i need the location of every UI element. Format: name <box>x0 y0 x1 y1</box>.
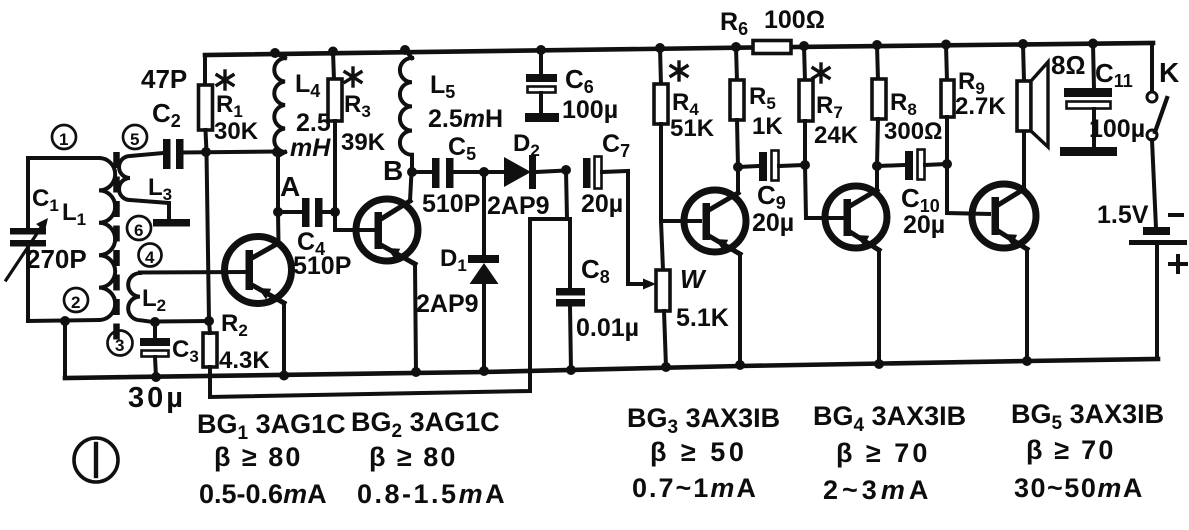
svg-text:100Ω: 100Ω <box>764 6 825 34</box>
svg-text:BG3 3AX3IB: BG3 3AX3IB <box>627 403 780 438</box>
wire R3 top from rail <box>333 52 334 81</box>
svg-text:2: 2 <box>71 293 80 312</box>
wire L5 top from rail <box>405 50 412 58</box>
svg-text:100µ: 100µ <box>1089 115 1145 143</box>
wire battery to ground rail <box>1155 245 1159 359</box>
wire top supply rail left section <box>205 48 753 56</box>
capacitor C7 20u <box>583 157 628 189</box>
resistor R3 39K <box>328 79 342 121</box>
wire R7 top from rail <box>804 46 805 81</box>
wire L2 bottom to bias node <box>155 319 209 324</box>
wiper arrow into W <box>643 279 656 290</box>
label plus <box>1170 256 1186 272</box>
node R3 rail junction <box>328 47 338 57</box>
svg-text:mH: mH <box>290 134 331 162</box>
svg-text:270P: 270P <box>26 244 87 274</box>
node terminal 3 <box>108 331 133 356</box>
wire BG1 emitter to ground rail <box>282 303 286 377</box>
wire R9 bottom to BG5 base <box>947 117 989 214</box>
node C5 D1 junction <box>479 167 489 177</box>
wire bottom ground rail <box>65 359 1158 378</box>
svg-text:1: 1 <box>59 130 68 149</box>
wire R1 top from rail <box>203 55 207 86</box>
wire R4 top from rail <box>660 48 661 85</box>
node B <box>407 167 417 177</box>
capacitor C4 510P <box>278 198 335 227</box>
wire C7 to volume wiper <box>628 171 644 284</box>
wire BG2 collector to node B <box>410 172 412 201</box>
node speaker rail junction <box>1018 39 1028 49</box>
wire BG1 collector to node A <box>276 212 281 244</box>
node terminal 4 <box>139 244 162 268</box>
wire W bottom to ground <box>664 311 666 367</box>
wire switch to battery <box>1152 140 1156 228</box>
wire R1 bottom to bias node <box>206 130 210 321</box>
inductor L4 2.5mH <box>274 58 285 152</box>
node R4 rail junction <box>655 43 665 53</box>
inductor L5 2.5mH <box>400 58 412 155</box>
wire C1 branch lower <box>26 246 30 321</box>
label 2.5mH L5 <box>428 105 503 133</box>
node R9 rail junction <box>941 40 951 50</box>
node C4 R3 junction <box>330 207 340 217</box>
wire R8 bottom to C10 node <box>877 119 878 166</box>
node R8 rail junction <box>872 40 882 50</box>
star mark R3 <box>345 68 361 86</box>
wire R9 top from rail <box>946 45 947 82</box>
resistor R4 51K <box>654 84 668 124</box>
transistor BG2 <box>356 199 418 264</box>
svg-text:A: A <box>280 171 300 202</box>
inductor L2 base coil <box>128 273 155 322</box>
node D1 ground <box>479 366 489 376</box>
wire BG3 emitter to ground <box>738 254 742 365</box>
wire L4 top from rail <box>275 53 285 58</box>
node C6 rail junction <box>536 45 546 55</box>
node BG1 emitter ground <box>279 371 289 381</box>
svg-text:510P: 510P <box>293 252 351 280</box>
svg-text:2AP9: 2AP9 <box>487 192 550 220</box>
wire R3 line to BG2 base <box>335 212 374 230</box>
diode D1 2AP9 <box>468 172 499 371</box>
svg-text:20µ: 20µ <box>752 209 794 237</box>
capacitor C6 100u <box>525 50 559 122</box>
node terminal 5 <box>123 125 147 149</box>
node L4 rail junction <box>270 48 280 58</box>
resistor R1 30K <box>199 85 213 130</box>
node BG2 emitter ground <box>411 367 421 377</box>
svg-text:510P: 510P <box>422 190 480 218</box>
wire L4 bottom to node A <box>278 152 285 212</box>
svg-text:20µ: 20µ <box>903 211 945 239</box>
capacitor C1 variable 270P <box>6 218 48 280</box>
svg-text:24K: 24K <box>814 122 859 149</box>
star mark R7 <box>813 64 829 82</box>
svg-text:0.01µ: 0.01µ <box>576 314 639 342</box>
node BG5 emitter ground <box>1022 356 1032 366</box>
svg-text:0.5-0.6mA: 0.5-0.6mA <box>199 479 327 509</box>
diode D2 2AP9 <box>504 155 566 189</box>
wire left tank bottom <box>28 320 99 321</box>
node C3 ground <box>151 372 161 382</box>
resistor R6 100ohm in rail <box>753 41 791 54</box>
speaker 8ohm <box>1017 62 1048 147</box>
svg-text:1K: 1K <box>752 113 783 140</box>
svg-text:β ≥ 80: β ≥ 80 <box>369 442 457 472</box>
capacitor C2 47P <box>163 139 184 169</box>
svg-text:5: 5 <box>130 130 139 149</box>
node L2 bottom junction <box>150 317 160 327</box>
svg-text:1.5V: 1.5V <box>1097 201 1149 229</box>
wire BG4 collector up <box>875 166 879 190</box>
ground symbol below L3 <box>153 219 190 227</box>
node A <box>273 207 283 217</box>
battery 1.5V <box>1129 227 1187 245</box>
wire R5 bottom to C9 node <box>737 120 738 167</box>
wire speaker top from rail <box>1023 44 1024 81</box>
capacitor C8 0.01u <box>556 219 585 371</box>
svg-text:51K: 51K <box>670 115 715 142</box>
svg-text:β ≥ 70: β ≥ 70 <box>836 438 930 468</box>
svg-text:6: 6 <box>134 221 143 240</box>
svg-text:2.5: 2.5 <box>296 109 331 137</box>
resistor R8 300ohm <box>872 79 886 119</box>
star mark R4 <box>671 62 687 80</box>
node terminal 2 <box>64 288 88 312</box>
svg-text:30K: 30K <box>214 118 259 145</box>
svg-text:0.7~1mA: 0.7~1mA <box>632 473 758 503</box>
node terminal 1 <box>52 125 76 149</box>
switch K <box>1147 92 1167 140</box>
svg-text:2.5mH: 2.5mH <box>428 105 503 133</box>
wire C11 top from rail <box>1093 44 1094 90</box>
wire R5 top from rail <box>736 47 737 81</box>
wire L2 to BG1 base <box>140 270 245 275</box>
node BG3 emitter ground <box>735 360 745 370</box>
svg-text:5.1K: 5.1K <box>676 304 729 332</box>
capacitor C5 510P <box>412 158 504 188</box>
svg-text:B: B <box>383 155 403 186</box>
transistor BG1 <box>225 237 292 304</box>
svg-text:4.3K: 4.3K <box>219 347 270 374</box>
svg-text:BG2 3AG1C: BG2 3AG1C <box>351 407 500 442</box>
transistor BG4 <box>825 186 887 250</box>
svg-text:2.7K: 2.7K <box>955 93 1006 120</box>
svg-text:BG4 3AX3IB: BG4 3AX3IB <box>813 401 966 436</box>
svg-text:20µ: 20µ <box>581 190 623 218</box>
star mark R1 <box>217 71 233 89</box>
svg-text:2~3mA: 2~3mA <box>823 475 932 505</box>
node bias junction <box>204 316 214 326</box>
wire R4 bottom to BG3 base and W <box>661 124 663 270</box>
svg-text:2AP9: 2AP9 <box>416 290 479 318</box>
transistor BG3 <box>684 190 746 254</box>
figure number marker <box>74 438 118 482</box>
node detector output <box>561 165 571 175</box>
wire R2 top <box>209 321 210 333</box>
svg-text:BG1 3AG1C: BG1 3AG1C <box>197 409 346 444</box>
node C9 left junction <box>733 162 743 172</box>
node C10 left junction <box>872 161 882 171</box>
svg-text:W: W <box>680 264 707 294</box>
potentiometer W 5.1K <box>656 270 670 311</box>
capacitor C9 20u <box>738 151 805 182</box>
node C10 right junction <box>942 159 952 169</box>
wire BG3 collector up <box>736 167 740 193</box>
wire R8 top from rail <box>877 45 878 80</box>
wire L5 bottom to node B <box>410 155 414 172</box>
inductor L3 feedback coil <box>119 153 169 217</box>
svg-text:300Ω: 300Ω <box>884 118 942 145</box>
svg-text:4: 4 <box>145 248 155 267</box>
wire top supply rail right section <box>791 43 1153 47</box>
svg-text:3: 3 <box>115 336 124 355</box>
capacitor C3 30u <box>140 338 170 357</box>
node junction tank to ground <box>60 316 70 326</box>
wire R2 bottom AGC line <box>210 219 567 397</box>
wire L2 bottom to C3 <box>153 322 157 339</box>
node C9 right junction <box>800 160 810 170</box>
svg-text:0.8-1.5mA: 0.8-1.5mA <box>357 479 507 509</box>
wire tank to ground rail <box>63 321 67 378</box>
resistor R9 2.7K <box>941 80 954 117</box>
svg-text:β ≥ 50: β ≥ 50 <box>650 437 747 467</box>
node R7 rail junction <box>799 41 809 51</box>
wire R7 bottom to BG4 base <box>805 121 842 218</box>
wire AGC to detector node <box>566 170 567 219</box>
svg-text:8Ω: 8Ω <box>1051 50 1085 80</box>
svg-text:30~50mA: 30~50mA <box>1014 473 1144 503</box>
transistor BG5 <box>972 184 1036 249</box>
svg-text:β ≥ 80: β ≥ 80 <box>214 442 302 472</box>
wire R3 bottom to C4 junction <box>333 121 337 212</box>
ferrite core dashed line <box>113 152 120 344</box>
label minus <box>1168 213 1184 217</box>
node C11 rail junction <box>1088 39 1098 49</box>
wire C1 branch upper <box>26 158 30 229</box>
wire BG4 emitter to ground <box>877 250 881 364</box>
resistor R7 24K <box>799 80 813 121</box>
svg-text:100µ: 100µ <box>562 96 618 124</box>
inductor L1 antenna coil <box>99 158 115 320</box>
wire C2 to L4 bottom <box>183 152 278 153</box>
wire BG5 collector to speaker <box>1022 131 1026 189</box>
svg-text:β ≥ 70: β ≥ 70 <box>1026 435 1116 465</box>
wire left tank top <box>28 156 99 160</box>
wire switch from rail <box>1150 43 1154 89</box>
svg-text:39K: 39K <box>341 129 386 156</box>
node C8 ground <box>566 365 576 375</box>
node R1 C2 junction <box>201 147 211 157</box>
svg-text:47P: 47P <box>141 64 187 94</box>
node L4 bottom C2 junction <box>272 147 282 157</box>
wire BG2 emitter to ground rail <box>415 264 416 372</box>
svg-text:30µ: 30µ <box>128 382 186 414</box>
node L5 rail junction <box>400 45 410 55</box>
node terminal 6 <box>127 216 151 240</box>
resistor R5 1K <box>730 80 744 120</box>
resistor R2 4.3K <box>203 333 217 367</box>
label 2.5 mH <box>290 109 331 162</box>
node W ground <box>661 362 671 372</box>
svg-text:K: K <box>1159 57 1179 88</box>
wire BG5 emitter to ground <box>1025 249 1029 361</box>
capacitor C11 100u <box>1060 88 1117 156</box>
capacitor C10 20u <box>877 150 947 181</box>
node BG4 emitter ground <box>874 359 884 369</box>
wire C3 to ground rail <box>155 357 156 377</box>
wire BG3 base lead <box>661 219 700 223</box>
svg-text:BG5 3AX3IB: BG5 3AX3IB <box>1011 399 1164 434</box>
node R5 rail junction <box>731 42 741 52</box>
